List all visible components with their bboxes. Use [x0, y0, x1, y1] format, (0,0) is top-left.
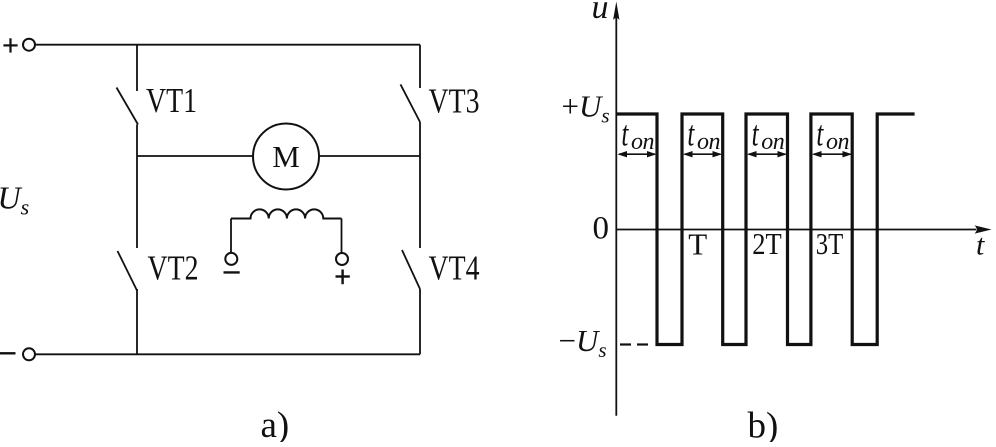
svg-text:VT1: VT1 [146, 82, 197, 120]
motor M [253, 124, 319, 190]
svg-text:T: T [688, 227, 707, 262]
wire winding left lead [230, 219, 232, 253]
terminal + (positive supply) [3, 38, 35, 52]
arrow t_on 1 [618, 151, 657, 157]
arrow t_on 3 [747, 151, 787, 157]
svg-text:+Us: +Us [562, 88, 610, 127]
axis t horizontal [616, 225, 991, 261]
svg-text:−Us: −Us [559, 323, 607, 362]
wire right branch upper [419, 45, 421, 88]
arrow t_on 2 [683, 151, 722, 157]
wire left branch upper [136, 45, 138, 91]
waveform PWM [616, 114, 914, 345]
arrow t_on 4 [812, 151, 852, 157]
svg-text:3T: 3T [816, 226, 844, 261]
svg-text:M: M [272, 139, 300, 174]
switch VT1 [117, 88, 139, 125]
svg-text:t: t [752, 113, 760, 154]
svg-text:2T: 2T [752, 226, 782, 261]
svg-text:t: t [621, 113, 629, 154]
wire left branch middle [136, 125, 138, 249]
wire bottom rail [35, 353, 420, 355]
svg-text:b): b) [748, 406, 779, 443]
svg-text:t: t [816, 113, 824, 154]
svg-text:VT4: VT4 [429, 250, 480, 288]
svg-text:a): a) [261, 405, 290, 442]
switch VT4 [402, 250, 420, 289]
svg-text:t: t [976, 229, 985, 262]
svg-text:on: on [761, 129, 784, 155]
wire left branch lower [136, 289, 138, 354]
svg-text:VT2: VT2 [148, 249, 199, 287]
wire winding right lead [341, 219, 343, 253]
svg-text:on: on [826, 129, 849, 155]
switch VT2 [118, 251, 138, 291]
svg-text:u: u [592, 0, 609, 26]
svg-text:VT3: VT3 [429, 82, 480, 120]
wire motor right [319, 155, 420, 157]
svg-text:Us: Us [0, 180, 29, 220]
terminal + (winding right) [336, 253, 350, 284]
inductor L field winding [231, 209, 342, 218]
svg-text:t: t [687, 113, 695, 154]
axis u vertical [592, 0, 620, 416]
svg-text:0: 0 [593, 211, 610, 247]
svg-text:on: on [631, 129, 654, 155]
dashed level -Us [620, 343, 648, 345]
svg-text:on: on [697, 129, 720, 155]
wire top rail [35, 44, 420, 46]
wire right branch middle [419, 122, 421, 248]
terminal − (winding left) [224, 253, 240, 273]
wire motor left [137, 155, 253, 157]
switch VT3 [401, 84, 421, 122]
terminal − (negative supply) [0, 348, 35, 360]
wire right branch lower [419, 289, 421, 354]
